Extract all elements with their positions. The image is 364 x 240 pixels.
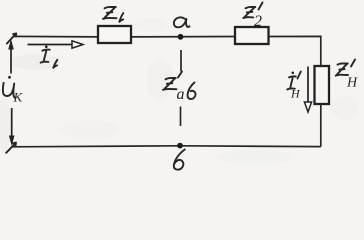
voltage Uk upper arrow	[8, 39, 14, 74]
svg-text:H: H	[290, 87, 301, 101]
node b	[174, 143, 185, 170]
wire top-left segment	[13, 35, 98, 38]
current arrow I1	[28, 41, 84, 68]
resistor Zn' (load)	[315, 60, 359, 105]
svg-text:a: a	[177, 86, 185, 103]
voltage Uk lower arrow	[9, 108, 15, 146]
wire Z2 to top-right corner and down	[269, 36, 321, 66]
svg-text:K: K	[13, 90, 24, 105]
resistor Z1	[98, 7, 131, 43]
terminal tick bottom-left	[6, 143, 16, 153]
svg-text:H: H	[346, 76, 358, 91]
node a	[174, 17, 190, 39]
current arrow In'	[287, 67, 311, 113]
resistor Z2'	[235, 3, 269, 45]
wire bottom	[12, 146, 321, 147]
wire Zn to bottom	[320, 104, 322, 147]
wire Z1 to Z2	[131, 36, 235, 38]
voltage Uk label	[3, 76, 24, 105]
impedance Zab' dashed marker	[163, 50, 196, 126]
terminal tick top-left	[7, 33, 16, 43]
svg-text:2: 2	[254, 13, 262, 30]
